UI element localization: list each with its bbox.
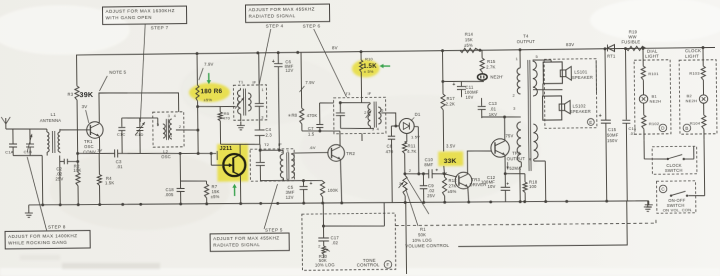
svg-text:4: 4 [174, 114, 176, 118]
svg-text:OUTPUT: OUTPUT [507, 156, 526, 161]
svg-text:CLOCK: CLOCK [685, 48, 701, 53]
highlight for J211 transistor [217, 144, 248, 182]
resistor R3 39K [67, 55, 94, 130]
svg-text:C4: C4 [265, 127, 271, 132]
svg-text:D: D [661, 126, 665, 131]
svg-text:R3: R3 [67, 92, 73, 97]
svg-text:+: + [599, 113, 602, 119]
wire T2 bottom row [260, 179, 294, 182]
transformer T3 box [333, 91, 385, 134]
leader line step 8 [27, 157, 46, 231]
svg-text:3V: 3V [82, 104, 88, 109]
green arrow at R6 [207, 73, 212, 84]
wire rail to T3 [361, 52, 362, 141]
T1 tuning arrow [235, 98, 244, 109]
svg-text:C7: C7 [308, 126, 314, 131]
svg-text:+: + [506, 183, 509, 188]
svg-text:STEP 5: STEP 5 [265, 227, 283, 232]
svg-text:STEP 4: STEP 4 [266, 23, 284, 28]
label R1 50K volume control [405, 227, 450, 249]
svg-text:5: 5 [381, 109, 383, 113]
capacitor C8 [385, 125, 398, 203]
wire base node [60, 129, 90, 132]
svg-text:3: 3 [513, 107, 515, 111]
label pin 2 [409, 169, 411, 173]
capacitor C16 [622, 48, 638, 201]
svg-text:4.7K: 4.7K [407, 149, 416, 154]
resistor R19 fusible [621, 29, 646, 50]
leader lines volume control [405, 178, 429, 226]
capacitor C18 [164, 181, 184, 204]
svg-text:3: 3 [261, 115, 263, 119]
svg-text:SWITCH: SWITCH [665, 168, 683, 173]
resistor R104 [690, 103, 707, 140]
svg-text:8MF: 8MF [424, 162, 433, 167]
svg-text:DIAL: DIAL [647, 48, 658, 53]
svg-text:RT1: RT1 [607, 53, 616, 58]
svg-text:±5%: ±5% [464, 43, 473, 48]
svg-text:NE2H: NE2H [650, 98, 662, 103]
svg-text:TR3: TR3 [471, 177, 480, 182]
svg-text:50MF: 50MF [607, 132, 619, 137]
wire C6 chain to T2 [277, 67, 281, 152]
wire clock switch right [684, 147, 694, 160]
circled letter C [659, 185, 667, 193]
svg-text:OUTPUT: OUTPUT [517, 39, 536, 44]
wire to 100K [302, 179, 322, 182]
junction dots on ground rail [41, 197, 608, 209]
label TR3 DRIVER [469, 177, 486, 188]
svg-text:50K: 50K [418, 232, 426, 237]
svg-text:C8: C8 [387, 143, 393, 148]
svg-text:R103: R103 [689, 71, 700, 76]
label 7.9V second [299, 80, 315, 92]
resistor R10 1.5K vertical [360, 60, 363, 72]
wire rail to dial chain [642, 48, 644, 66]
svg-text:✳R8: ✳R8 [288, 113, 298, 118]
clock light box [679, 48, 717, 134]
capacitor C1D (gang) [135, 118, 145, 154]
svg-text:33K: 33K [444, 158, 457, 165]
resistor R11 4.7K [402, 142, 416, 176]
svg-text:R1: R1 [420, 227, 426, 232]
wire D1 down [404, 133, 406, 141]
on-off switch box [657, 181, 696, 213]
svg-text:C1A: C1A [5, 149, 14, 154]
label 180 R6 [200, 88, 222, 95]
svg-text:R11: R11 [408, 143, 416, 148]
resistor R15 2.7K [480, 50, 496, 74]
transistor TR2 [328, 145, 345, 162]
svg-text:100K: 100K [328, 188, 339, 193]
label 75V [505, 133, 513, 138]
svg-text:T1: T1 [238, 79, 244, 84]
svg-text:2.7K: 2.7K [486, 64, 495, 69]
tone control box [302, 213, 396, 270]
resistor R102 [642, 103, 660, 140]
svg-text:27K: 27K [449, 183, 457, 188]
capacitor C4 [254, 120, 272, 144]
svg-text:+: + [452, 82, 455, 88]
svg-text:12V: 12V [285, 68, 293, 73]
label TR1 OSC CONV [83, 139, 96, 155]
svg-text:2: 2 [179, 125, 181, 129]
label R6 tolerance [204, 97, 213, 102]
transformer T1 box [233, 79, 266, 120]
wire T4 to speakers [533, 60, 552, 62]
capacitor C1C [117, 118, 126, 153]
wire gang tops [122, 118, 158, 127]
capacitor C1A [5, 129, 17, 156]
svg-text:C: C [661, 187, 665, 192]
svg-text:C1C: C1C [117, 132, 126, 137]
wire emitter row [78, 152, 115, 155]
label STEP 4 [266, 23, 284, 28]
svg-text:ON VOL. CON.: ON VOL. CON. [663, 207, 693, 212]
resistor 100K [320, 181, 338, 203]
callout box step 7 [102, 6, 186, 24]
T3 tuning cap [336, 101, 345, 128]
svg-text:T2: T2 [264, 142, 270, 147]
wire antenna bottom [13, 155, 43, 205]
resistor R5 470 [196, 105, 236, 145]
label R10 tolerance [364, 69, 374, 74]
capacitor C11 [452, 81, 478, 100]
wire TR1 collector feedback loop [99, 92, 179, 122]
transistor TR3 [455, 172, 472, 189]
svg-text:J211: J211 [220, 146, 233, 152]
capacitor C9 [420, 172, 436, 202]
wire bottom return [458, 201, 627, 247]
svg-text:B: B [685, 126, 688, 131]
svg-text:C1D: C1D [135, 132, 144, 137]
wire detector row [118, 152, 217, 154]
svg-text:.6V: .6V [309, 145, 316, 150]
svg-text:R104: R104 [690, 121, 701, 126]
svg-text:1V: 1V [97, 147, 102, 152]
svg-text:39K: 39K [79, 90, 93, 99]
T2 tuning cap [256, 149, 265, 181]
wire TR4 emitter [504, 155, 526, 187]
svg-text:L1: L1 [51, 112, 57, 117]
label NOTE 5 [99, 70, 127, 91]
svg-text:470: 470 [223, 115, 231, 120]
circled letter F [384, 261, 392, 269]
svg-text:2: 2 [318, 244, 320, 248]
resistor R14 15K [460, 32, 479, 53]
wire L2 pin2 out [176, 129, 198, 132]
label TR2 [346, 151, 355, 156]
resistor R7 15K [204, 181, 219, 204]
svg-text:2.2K: 2.2K [446, 101, 455, 106]
transistor TR1 [87, 122, 104, 139]
label STEP 6 [303, 23, 321, 28]
potentiometer R1 volume [398, 172, 407, 202]
callout box step 8 [5, 230, 90, 248]
svg-text:1.5K: 1.5K [105, 180, 114, 185]
svg-text:SPEAKER: SPEAKER [570, 109, 591, 114]
transformer L1 antenna [40, 112, 62, 156]
wire D1 out right [414, 127, 420, 176]
svg-text:C15: C15 [608, 127, 617, 132]
wire shield drop [405, 202, 408, 273]
junction dots on supply rail [196, 46, 705, 55]
svg-text:10% LOG: 10% LOG [412, 238, 432, 243]
svg-text:2: 2 [281, 150, 283, 154]
resistor R101 [641, 66, 659, 95]
svg-text:10V: 10V [488, 184, 496, 189]
svg-text:4: 4 [377, 127, 379, 131]
wire tone row [323, 203, 384, 227]
thermistor RT1 [607, 44, 616, 58]
svg-text:150V: 150V [607, 138, 618, 143]
leader line step 4 to T1 [258, 29, 271, 85]
svg-text:STEP 7: STEP 7 [151, 25, 169, 30]
wire antenna top [6, 128, 47, 131]
capacitor C13 [478, 98, 498, 118]
svg-text:F: F [386, 262, 389, 267]
label 33K [441, 158, 457, 176]
svg-text:ANTENNA: ANTENNA [40, 118, 61, 123]
svg-text:8V: 8V [332, 45, 338, 50]
T3 coils [340, 101, 383, 131]
svg-text:.005: .005 [165, 192, 174, 197]
wire T3 secondary to D1 [381, 113, 399, 126]
wire R8 to TR2 collector [302, 131, 340, 147]
svg-text:2: 2 [513, 94, 515, 98]
T2 coils [260, 150, 294, 183]
T1 coils [237, 88, 251, 121]
svg-text:IF: IF [367, 91, 371, 96]
capacitor C10 [424, 157, 438, 178]
svg-text:1: 1 [261, 88, 263, 92]
speaker LS101 frame [543, 62, 571, 84]
svg-text:T4: T4 [523, 33, 529, 38]
on-off switch symbol [663, 191, 693, 212]
svg-text:4: 4 [529, 158, 531, 162]
label 7.9V first [199, 62, 214, 80]
svg-text:15K: 15K [465, 37, 473, 42]
label STEP 5 [265, 227, 283, 232]
label R10 [365, 56, 373, 61]
wire T2 secondary out [291, 152, 294, 155]
wire top supply rail [76, 47, 715, 55]
svg-text:LS101: LS101 [574, 69, 588, 74]
svg-text:R14: R14 [465, 32, 474, 37]
svg-text:1.5: 1.5 [308, 131, 315, 136]
svg-text:RADIATED SIGNAL: RADIATED SIGNAL [213, 242, 260, 248]
wire L2 to emitter row [196, 129, 199, 155]
svg-text:+: + [272, 59, 275, 65]
svg-text:R17: R17 [447, 96, 456, 101]
lamp B1 NE2H [639, 93, 661, 103]
transistor TR4 [491, 139, 510, 158]
label 52MA [506, 162, 521, 171]
wire TR1 emitter [98, 136, 100, 153]
svg-text:83V: 83V [566, 42, 574, 47]
svg-text:NOTE 5: NOTE 5 [109, 70, 126, 75]
capacitor C7 [308, 103, 334, 137]
svg-text:470: 470 [386, 149, 394, 154]
highlight for R6 180 value [189, 83, 230, 102]
svg-text:R15: R15 [487, 59, 496, 64]
svg-text:3: 3 [168, 114, 170, 118]
circled letter B [683, 124, 691, 132]
label TR4 OUTPUT [507, 151, 526, 162]
svg-text:C13: C13 [489, 101, 498, 106]
wire TR3 collector to TR4 base [467, 151, 491, 175]
capacitor C5 [285, 180, 312, 203]
svg-text:OSC: OSC [161, 154, 171, 159]
wire T2 base to TR2 [294, 152, 328, 154]
antenna symbol [1, 117, 10, 129]
svg-text:T3: T3 [345, 91, 351, 96]
svg-text:OSC: OSC [84, 144, 94, 149]
svg-text:10V: 10V [466, 95, 474, 100]
svg-text:SPEAKER: SPEAKER [572, 75, 593, 80]
transformer T4 [512, 33, 539, 171]
label L2 OSC [161, 149, 171, 160]
svg-text:VOLUME CONTROL: VOLUME CONTROL [405, 243, 449, 249]
svg-text:.01: .01 [490, 106, 497, 111]
svg-text:+: + [435, 169, 438, 174]
capacitor C6 [272, 52, 294, 73]
label 1V [97, 147, 102, 152]
svg-text:LIGHT: LIGHT [645, 54, 659, 59]
capacitor C12 [481, 175, 510, 202]
capacitor C1B (gang) [23, 129, 34, 156]
svg-text:3: 3 [287, 150, 289, 154]
svg-text:10% LOG: 10% LOG [315, 262, 335, 267]
svg-text:12V: 12V [286, 195, 294, 200]
svg-text:1: 1 [170, 134, 172, 138]
svg-text:D1: D1 [415, 112, 421, 117]
wire J211 drain [221, 144, 261, 155]
transformer T2 box [250, 142, 294, 182]
clock switch symbol [652, 155, 685, 174]
leader line step 6 to T3 [314, 29, 347, 98]
label 8V [332, 45, 338, 50]
wire speaker return [595, 60, 597, 93]
resistor R103 [689, 66, 705, 95]
wire J211 source [239, 175, 241, 203]
label 3.5V [446, 143, 455, 148]
svg-text:STEP 8: STEP 8 [48, 224, 66, 229]
wire T4 pin4 down [520, 162, 522, 202]
wire dial chain to switch area [644, 140, 652, 159]
resistor R6 180 from rail [195, 55, 199, 153]
speaker enclosure dashed box [544, 59, 597, 129]
wire rail to AGC row [441, 50, 484, 94]
svg-text:R102: R102 [649, 121, 660, 126]
label 1.5V [411, 134, 420, 139]
svg-text:470K: 470K [307, 113, 318, 118]
potentiometer R20 [315, 244, 335, 267]
label J211 [220, 146, 233, 152]
wire T4 secondary bottom [534, 159, 546, 202]
svg-text:R101: R101 [648, 71, 659, 76]
wire TR4 collector to T4 [482, 115, 521, 141]
capacitor C15 [598, 49, 619, 202]
wire C18 row [179, 152, 207, 182]
diode D1 [399, 118, 414, 133]
svg-text:CONTROL: CONTROL [357, 262, 380, 267]
svg-text:5: 5 [536, 55, 538, 59]
speaker LS102 frame [543, 96, 571, 120]
leader line step 5 [264, 184, 279, 229]
svg-text:1KV: 1KV [489, 112, 498, 117]
svg-text:E: E [589, 120, 592, 125]
wire clock chain down [688, 140, 705, 196]
ground symbol right [627, 201, 653, 210]
wire bottom ground rail [29, 198, 627, 208]
svg-text:LS102: LS102 [573, 103, 587, 108]
svg-text:STEP 6: STEP 6 [303, 23, 321, 28]
label TONE CONTROL [357, 258, 380, 268]
svg-text:NE2H: NE2H [686, 98, 698, 103]
svg-text:3: 3 [399, 182, 401, 186]
label 3V [82, 104, 89, 123]
clock switch box [652, 146, 697, 174]
capacitor C17 [318, 226, 339, 246]
svg-text:C1B: C1B [24, 149, 33, 154]
svg-text:3.5V: 3.5V [446, 143, 455, 148]
wire between speakers [533, 83, 563, 96]
label LS102 SPEAKER [570, 103, 591, 114]
wire volume top row [405, 173, 429, 176]
capacitor C3 [115, 149, 124, 169]
svg-text:IF: IF [252, 79, 256, 84]
green arrow below J211 [232, 184, 237, 196]
svg-text:WHILE ROCKING GANG: WHILE ROCKING GANG [8, 240, 67, 246]
svg-text:R10: R10 [365, 56, 373, 61]
svg-text:IF: IF [278, 142, 282, 147]
svg-text:TR2: TR2 [346, 151, 355, 156]
svg-text:NE2H': NE2H' [490, 74, 503, 79]
dial light box [634, 48, 671, 134]
neon lamp NE2H [477, 74, 503, 82]
callout box step 5 [210, 233, 289, 251]
circled letter E [587, 119, 594, 126]
label 83V [566, 42, 574, 47]
svg-text:R12: R12 [448, 178, 457, 183]
label STEP 8 [48, 224, 66, 229]
svg-text:ADJUST FOR MAX 1630KHZ: ADJUST FOR MAX 1630KHZ [106, 8, 175, 14]
svg-text:5: 5 [157, 123, 159, 127]
svg-text:FUSIBLE: FUSIBLE [621, 39, 640, 44]
wire TR2 emitter [340, 159, 341, 203]
label LS101 SPEAKER [572, 69, 593, 80]
resistor R2 10K [73, 130, 82, 205]
circled letter D [659, 124, 667, 132]
wire 33K node [443, 166, 446, 175]
callout box steps 4 and 6 [245, 4, 329, 22]
wire TR3 emitter [467, 187, 470, 202]
svg-text:180 R6: 180 R6 [200, 88, 222, 95]
wire C10 to TR3 base [432, 174, 457, 178]
resistor R8 470K [287, 52, 317, 131]
label 1.5K [363, 64, 377, 70]
wire rail to tone [322, 203, 325, 227]
label STEP 7 [151, 25, 169, 30]
transistor J211 symbol [223, 154, 245, 176]
svg-text:± 5%: ± 5% [364, 69, 374, 74]
svg-text:ADJUST FOR MAX 1400KHZ: ADJUST FOR MAX 1400KHZ [8, 233, 77, 239]
svg-text:2: 2 [364, 111, 366, 115]
label pin 3 [399, 182, 401, 186]
ground symbol switch [644, 201, 652, 212]
highlight for 33K value [438, 151, 463, 166]
